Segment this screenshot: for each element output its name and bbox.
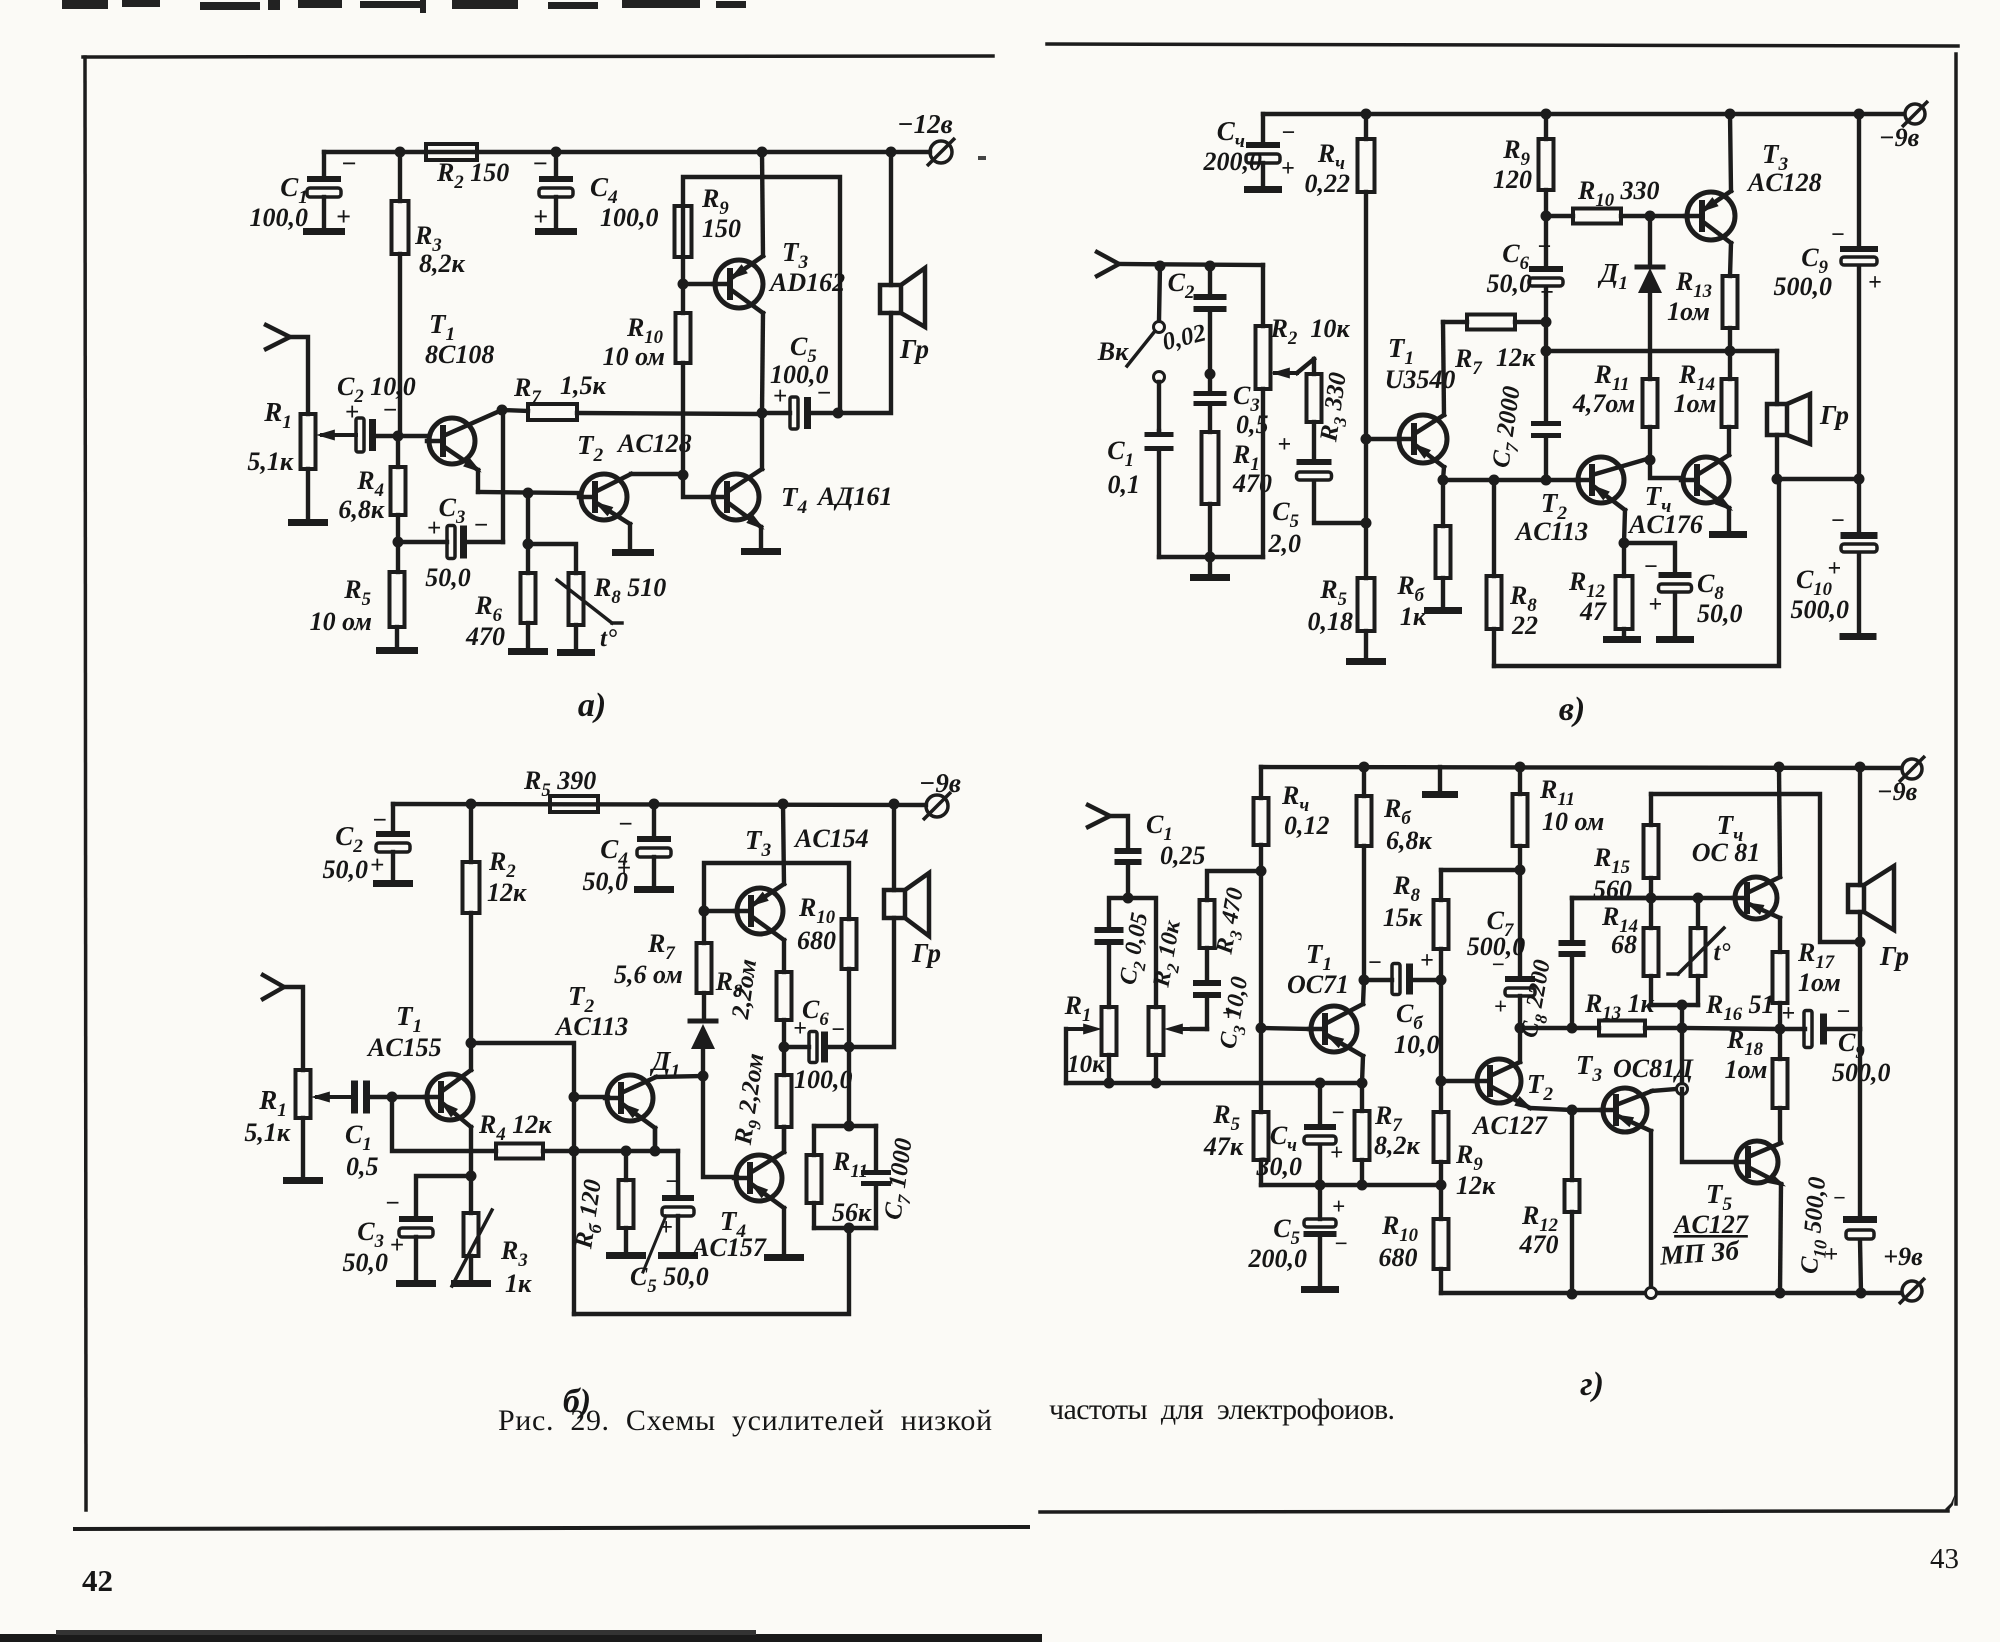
- capacitor C5 2,0 v: [1268, 432, 1367, 558]
- scan artifact bottom strip: [0, 1630, 1042, 1642]
- resistor R10 330 v: [1546, 176, 1683, 224]
- ground below C2 b: [373, 880, 413, 887]
- svg-text:50,0: 50,0: [1697, 599, 1743, 628]
- svg-text:50,0: 50,0: [425, 563, 471, 592]
- ground below T4: [741, 548, 781, 555]
- ground below R6 b: [606, 1252, 646, 1259]
- resistor R9 2,2 ом b: [730, 1047, 792, 1152]
- resistor R8 22 v: [1487, 480, 1539, 666]
- resistor R2 12к b: [463, 804, 528, 1043]
- capacitor C6 50,0 v: [1487, 216, 1564, 322]
- wire C3 to T1 collector: [501, 410, 505, 542]
- left page bottom rule: [75, 1527, 1028, 1529]
- resistor R3 470 g: [1200, 871, 1262, 980]
- svg-text:+: +: [1222, 1000, 1235, 1025]
- svg-text:42: 42: [82, 1563, 113, 1598]
- node input-switch v: [1155, 261, 1166, 272]
- resistor R13 1к g: [1520, 989, 1682, 1036]
- svg-text:C1: C1: [345, 1120, 372, 1155]
- resistor R14 1ом v: [1674, 351, 1737, 427]
- node R11-C7 top b: [844, 1121, 855, 1132]
- ground on rail g: [1422, 767, 1458, 798]
- svg-text:43: 43: [1930, 1543, 1959, 1575]
- transistor T1 U3540 v: [1361, 333, 1456, 467]
- node R4-R5-C3 junction: [393, 537, 404, 548]
- svg-text:+: +: [390, 1232, 404, 1259]
- svg-text:68: 68: [1611, 930, 1637, 959]
- svg-text:120: 120: [1493, 165, 1532, 194]
- svg-text:−: −: [618, 811, 633, 838]
- node bottom T3 emitter circle g: [1646, 1288, 1657, 1299]
- node R8 top v: [1489, 475, 1500, 486]
- node R15 bottom g: [1646, 893, 1657, 904]
- resistor R6 1к v: [1396, 480, 1450, 631]
- transistor T3 AD162: [683, 237, 845, 313]
- node rail T4 g: [1774, 762, 1785, 773]
- svg-text:R1: R1: [258, 1085, 287, 1121]
- node rail at T3 v: [1725, 109, 1736, 120]
- node T1 collector junction: [497, 405, 508, 416]
- svg-text:+: +: [1332, 1194, 1345, 1219]
- resistor R7 5,6 ом b: [614, 911, 712, 1021]
- wire T3 emitter to rail: [762, 152, 763, 256]
- node C6 right b: [844, 1042, 855, 1053]
- switch Вк v: [1097, 266, 1165, 431]
- ground below C5 g: [1301, 1286, 1339, 1293]
- svg-text:12к: 12к: [487, 878, 527, 907]
- svg-text:+: +: [1540, 280, 1554, 306]
- svg-text:R6: R6: [474, 591, 502, 626]
- node T3 base b: [699, 906, 710, 917]
- potentiometer R1 5,1к: [247, 397, 356, 476]
- resistor R5 10 ом: [310, 542, 405, 647]
- ground below R6 v: [1424, 607, 1462, 614]
- svg-text:−: −: [473, 512, 488, 539]
- capacitor C7 2000 v: [1488, 322, 1561, 480]
- svg-text:AC113: AC113: [554, 1012, 628, 1041]
- svg-text:+9в: +9в: [1883, 1242, 1923, 1271]
- svg-text:−: −: [382, 397, 397, 424]
- svg-text:−: −: [1491, 952, 1505, 977]
- svg-text:+: +: [793, 1016, 807, 1042]
- caption Рис. 29: [498, 1404, 992, 1437]
- transistor T1 OC71 g: [1261, 939, 1363, 1056]
- tiny mark near -12в: [978, 156, 986, 160]
- svg-text:12к: 12к: [1456, 1171, 1496, 1200]
- wire T3 emitter down g: [1649, 1131, 1653, 1288]
- ground below C10 v: [1840, 633, 1877, 640]
- wire T4 emitter to ground v: [1727, 508, 1731, 531]
- node rail at R2: [466, 799, 477, 810]
- thermistor R16 51 g: [1668, 898, 1775, 1025]
- svg-text:6,8к: 6,8к: [1386, 826, 1433, 855]
- svg-text:10,0: 10,0: [1394, 1030, 1440, 1059]
- page number 43: [1930, 1543, 1959, 1575]
- wire: circuit a power rail -12V: [324, 150, 930, 154]
- node rail at speaker b: [889, 799, 900, 810]
- svg-text:47: 47: [1579, 597, 1607, 626]
- ground below C8 v: [1656, 636, 1694, 643]
- node R11 bottom g: [1515, 865, 1526, 876]
- node T2 collector junction b: [698, 1071, 709, 1082]
- svg-text:+: +: [1494, 994, 1507, 1019]
- node C7 bottom on base line v: [1541, 475, 1552, 486]
- svg-text:б): б): [563, 1383, 591, 1420]
- node R1 bottom v: [1205, 552, 1216, 563]
- capacitor C5 50,0 b: [630, 1151, 709, 1297]
- svg-text:12к: 12к: [1496, 343, 1536, 372]
- svg-text:5,6 ом: 5,6 ом: [614, 960, 683, 989]
- scan artifacts top edge: [62, 0, 746, 13]
- svg-text:АД161: АД161: [816, 482, 892, 511]
- svg-text:−: −: [1830, 508, 1845, 534]
- wire T1 emitter g: [1362, 1056, 1363, 1083]
- resistor R13 1ом v: [1667, 267, 1737, 351]
- svg-text:+: +: [336, 202, 351, 231]
- wire T3 emitter to rail b: [783, 804, 784, 884]
- node C7 bottom g: [1515, 1023, 1526, 1034]
- svg-text:C3: C3: [357, 1217, 384, 1252]
- svg-text:R3: R3: [500, 1236, 528, 1271]
- wire bottom rail g: [1441, 1291, 1901, 1295]
- resistor R11 56к b: [807, 1126, 877, 1228]
- svg-text:1ом: 1ом: [1674, 389, 1717, 418]
- node rail R6 g: [1359, 762, 1370, 773]
- bootstrap wire R10 top b: [704, 863, 849, 919]
- resistor R10 680 g: [1379, 1185, 1449, 1293]
- node T2 collector v: [1645, 455, 1656, 466]
- resistor R5 47к g: [1203, 1023, 1269, 1186]
- ground below T4 v: [1709, 531, 1747, 538]
- ground below R6: [508, 648, 548, 655]
- wire T2 collector g: [1518, 1028, 1522, 1062]
- wire small circle up g: [1680, 1028, 1684, 1083]
- wire T2 collector: [631, 472, 683, 476]
- node output midpoint: [757, 408, 768, 419]
- wire T2 emitter down v: [1624, 510, 1625, 543]
- resistor R4 0,22 v: [1305, 114, 1375, 439]
- svg-text:T1: T1: [396, 1001, 422, 1037]
- svg-text:R5: R5: [1212, 1100, 1240, 1135]
- svg-text:0,02: 0,02: [1160, 319, 1209, 356]
- svg-text:t°: t°: [600, 625, 617, 652]
- ground below T4 b: [764, 1254, 804, 1261]
- svg-text:R7: R7: [647, 929, 675, 964]
- resistor R9 150: [675, 177, 841, 413]
- svg-text:C5 50,0: C5 50,0: [630, 1262, 709, 1297]
- svg-text:Cб: Cб: [1396, 999, 1423, 1034]
- svg-text:−9в: −9в: [1879, 123, 1920, 152]
- resistor R17 1ом g: [1773, 918, 1841, 1029]
- svg-text:10 ом: 10 ом: [1542, 807, 1604, 836]
- svg-text:−12в: −12в: [897, 109, 952, 139]
- capacitor C4 30,0 g: [1256, 1083, 1345, 1186]
- svg-text:+: +: [1277, 432, 1291, 458]
- wire T1 collector to R7 v: [1443, 322, 1444, 415]
- capacitor C7 500,0 g: [1467, 870, 1535, 1028]
- ground below R12 v: [1603, 636, 1641, 643]
- resistor R6 470: [465, 493, 536, 651]
- svg-text:Rб: Rб: [1396, 571, 1424, 606]
- svg-text:C1: C1: [1146, 810, 1173, 845]
- svg-text:+: +: [1330, 1140, 1343, 1165]
- svg-text:15к: 15к: [1383, 903, 1423, 932]
- node T3 base junction: [678, 279, 689, 290]
- svg-text:−9в: −9в: [1877, 777, 1918, 806]
- ground below R5: [376, 647, 418, 654]
- svg-text:+: +: [1827, 556, 1841, 582]
- node junction on rail at C4: [551, 147, 562, 158]
- wire R2 bottom g: [1154, 1055, 1158, 1083]
- node junction on rail at R3: [395, 147, 406, 158]
- svg-text:R5: R5: [343, 575, 371, 610]
- svg-text:R9: R9: [1455, 1140, 1483, 1175]
- resistor R9 12к g: [1434, 1081, 1497, 1200]
- resistor R4 0,12 g: [1254, 767, 1330, 1028]
- svg-text:AC176: AC176: [1627, 510, 1703, 539]
- caption continuation right page: [1049, 1393, 1395, 1426]
- wire T2 emitter node to C5 line b: [653, 1128, 657, 1151]
- resistor R4 6,8к: [338, 436, 405, 542]
- resistor R18 1ом g: [1725, 1025, 1788, 1141]
- left page top border: [83, 56, 993, 57]
- ground below R1 b: [283, 1177, 323, 1184]
- svg-text:R10: R10: [1381, 1211, 1419, 1246]
- capacitor C3 0,5 v: [1194, 374, 1269, 439]
- capacitor C9 500,0 v: [1774, 114, 1882, 479]
- left page left border: [85, 57, 86, 1510]
- svg-text:AC155: AC155: [366, 1033, 442, 1062]
- svg-text:500,0: 500,0: [1774, 272, 1833, 301]
- capacitor C8 2200 g: [1516, 898, 1585, 1041]
- wire T2 emitter to T3 base g: [1530, 1108, 1603, 1110]
- svg-text:1к: 1к: [505, 1269, 532, 1298]
- ground below R5 v: [1346, 658, 1386, 665]
- wire T2 collector to D1 node b: [656, 1076, 703, 1077]
- svg-text:R8: R8: [1392, 871, 1420, 906]
- svg-text:470: 470: [1232, 469, 1272, 498]
- wire R15 bootstrap g: [1651, 794, 1855, 942]
- capacitor C2 50,0: [323, 804, 411, 884]
- svg-text:−: −: [532, 149, 548, 178]
- svg-text:+: +: [1824, 1242, 1838, 1268]
- wire feedback bottom b: [574, 1228, 849, 1314]
- svg-text:−: −: [385, 1190, 400, 1217]
- resistor R7 1,5к: [502, 371, 762, 420]
- svg-text:R11: R11: [1539, 775, 1575, 810]
- capacitor C7 1000 b: [861, 1126, 923, 1228]
- node midpoint-C6 v: [1541, 346, 1552, 357]
- svg-text:R2: R2: [488, 847, 516, 882]
- svg-text:680: 680: [1379, 1243, 1418, 1272]
- loudspeaker Гр: [838, 152, 929, 413]
- resistor R11 4,7ом v: [1572, 360, 1658, 460]
- svg-text:T3: T3: [745, 825, 772, 861]
- svg-text:−: −: [1281, 120, 1296, 146]
- node rail at R4 v: [1361, 109, 1372, 120]
- svg-text:0,18: 0,18: [1308, 607, 1354, 636]
- svg-text:6,8к: 6,8к: [338, 495, 385, 524]
- resistor R6 120 b: [570, 1151, 633, 1252]
- svg-text:Д1: Д1: [1597, 258, 1628, 294]
- svg-text:C2: C2: [1168, 268, 1195, 303]
- svg-text:500,0: 500,0: [1791, 595, 1850, 624]
- node rail at R9 v: [1541, 109, 1552, 120]
- svg-text:680: 680: [797, 926, 836, 955]
- terminal -12в: [897, 109, 955, 166]
- transistor T2 AC127 g: [1436, 1059, 1554, 1140]
- node bottom R12 g: [1567, 1289, 1578, 1300]
- node T1 emitter b: [466, 1171, 477, 1182]
- wire R1 bottom g: [1107, 1055, 1111, 1083]
- svg-text:1,5к: 1,5к: [560, 371, 607, 400]
- resistor R2 150: [426, 144, 509, 193]
- node input-C2 v: [1205, 261, 1216, 272]
- svg-text:AC128: AC128: [1746, 168, 1822, 197]
- wire T2 emitter to ground: [628, 524, 632, 547]
- potentiometer R2 10к g: [1128, 898, 1207, 1055]
- svg-text:T2: T2: [1527, 1069, 1554, 1105]
- wire T3 emitter to rail v: [1730, 114, 1731, 191]
- capacitor C9 500,0 g: [1682, 999, 1891, 1087]
- node speaker bottom g: [1855, 937, 1866, 948]
- input terminal arrow: [266, 325, 308, 414]
- terminal -9в v: [1879, 101, 1928, 152]
- svg-text:Гр: Гр: [1879, 941, 1909, 971]
- capacitor C3 50,0: [398, 493, 503, 592]
- svg-text:R11: R11: [832, 1147, 868, 1182]
- wire T1 emitter down b: [469, 1127, 473, 1176]
- svg-text:+: +: [427, 515, 441, 542]
- svg-text:R3 470: R3 470: [1211, 886, 1253, 958]
- svg-text:R10: R10: [798, 893, 836, 928]
- node T1 collector b: [466, 1038, 477, 1049]
- wire feedback bottom v: [1494, 479, 1779, 666]
- capacitor C2 0,02 v: [1160, 266, 1227, 374]
- svg-text:−: −: [1334, 1231, 1348, 1256]
- capacitor C5 200,0 g: [1248, 1185, 1348, 1286]
- svg-text:470: 470: [1519, 1230, 1559, 1259]
- svg-text:0,25: 0,25: [1160, 841, 1206, 870]
- svg-text:−: −: [341, 149, 357, 178]
- svg-text:10к: 10к: [1310, 314, 1350, 343]
- node T4 base junction: [678, 470, 689, 481]
- wire feedback vertical b: [572, 1097, 576, 1314]
- transistor T3 AC154 b: [704, 824, 869, 940]
- capacitor C1 0,5 b: [345, 1081, 398, 1182]
- label г): [1580, 1366, 1604, 1403]
- svg-text:56к: 56к: [832, 1198, 872, 1227]
- svg-text:C5: C5: [1272, 497, 1299, 532]
- svg-text:50,0: 50,0: [1487, 269, 1533, 298]
- capacitor C1 100,0: [250, 149, 357, 232]
- node R17 bottom g: [1775, 1024, 1786, 1035]
- svg-text:−: −: [372, 807, 387, 834]
- resistor R14 68 g: [1601, 898, 1659, 1005]
- svg-text:а): а): [578, 687, 606, 724]
- svg-text:2,0: 2,0: [1268, 529, 1302, 558]
- wire midpoint line v: [1546, 349, 1777, 353]
- wire: circuit g power rail -9V: [1261, 767, 1901, 768]
- diode Д1 v: [1597, 216, 1663, 379]
- node R16 top g: [1693, 893, 1704, 904]
- capacitor C3 50,0 b: [343, 1176, 472, 1280]
- node C5 right junction: [833, 408, 844, 419]
- ground below C4: [535, 228, 577, 235]
- svg-text:AC128: AC128: [616, 429, 692, 458]
- transistor T4 AC176 v: [1627, 455, 1736, 539]
- svg-text:Rб 120: Rб 120: [570, 1177, 612, 1252]
- svg-text:R1: R1: [263, 397, 292, 433]
- svg-text:R15: R15: [1593, 843, 1630, 878]
- terminal +9в g: [1883, 1242, 1925, 1304]
- node R6 tap on T2 base line: [523, 488, 534, 499]
- wire T4 emitter to C5 node: [760, 413, 764, 469]
- svg-text:5,1к: 5,1к: [247, 447, 294, 476]
- svg-text:30,0: 30,0: [1256, 1152, 1303, 1181]
- svg-text:100,0: 100,0: [250, 203, 309, 232]
- input arrow g: [1088, 805, 1128, 848]
- resistor R3 330 v: [1307, 359, 1357, 459]
- wire T1 emitter corner v: [1438, 467, 1449, 486]
- svg-text:ОС 81: ОС 81: [1692, 838, 1761, 867]
- svg-text:+: +: [773, 383, 787, 410]
- node R12 tap g: [1567, 1105, 1578, 1116]
- wire T4 collector to R14 v: [1727, 427, 1731, 455]
- svg-text:−: −: [665, 1169, 680, 1195]
- svg-text:T2: T2: [577, 430, 604, 466]
- svg-text:C7 2000: C7 2000: [1488, 384, 1531, 470]
- resistor R5 0,18 v: [1308, 439, 1375, 658]
- ground below C4 v: [1244, 186, 1282, 193]
- svg-text:8,2к: 8,2к: [1374, 1131, 1421, 1160]
- resistor R10 10 ом: [603, 284, 691, 475]
- variable resistor R3 1к b: [452, 1176, 532, 1298]
- wire speaker to C9 v: [1777, 477, 1859, 481]
- node rail R11 g: [1515, 762, 1526, 773]
- wire T3 collector down v: [1730, 243, 1731, 276]
- node rail at T3: [778, 799, 789, 810]
- transistor T2 AC113 v: [1443, 457, 1647, 546]
- capacitor C1 0,1 v: [1107, 431, 1173, 557]
- svg-text:Гр: Гр: [1819, 400, 1849, 430]
- svg-text:R16 51: R16 51: [1705, 990, 1775, 1025]
- svg-text:C7 1000: C7 1000: [880, 1136, 923, 1222]
- svg-text:R10 330: R10 330: [1577, 176, 1660, 211]
- svg-text:R2: R2: [1270, 314, 1298, 349]
- svg-text:R5: R5: [1319, 575, 1347, 610]
- wire C9 right up g: [1858, 942, 1862, 1029]
- node R7-C6 junction v: [1541, 317, 1552, 328]
- node R11-C7 bottom b: [814, 1223, 876, 1234]
- svg-text:−: −: [1833, 1185, 1846, 1210]
- svg-text:8,2к: 8,2к: [419, 249, 466, 278]
- terminal -9в g: [1877, 756, 1925, 806]
- label в): [1559, 691, 1586, 728]
- svg-text:AC113: AC113: [1514, 517, 1588, 546]
- ground stem v: [1190, 557, 1230, 581]
- node junction on rail at T3 emitter: [757, 147, 768, 158]
- wire T1 collector up b: [469, 1043, 473, 1070]
- svg-text:частоты для электрофоиов.: частоты для электрофоиов.: [1049, 1393, 1395, 1426]
- transistor T1 8C108: [425, 309, 502, 477]
- transistor T5 AC127-МП g: [1658, 1089, 1789, 1271]
- node T3 collector circle g: [1652, 1084, 1688, 1095]
- node T1 emitter g: [1357, 1078, 1368, 1089]
- svg-text:+: +: [370, 852, 384, 879]
- capacitor C2 0,05 g: [1095, 898, 1159, 1007]
- svg-text:−9в: −9в: [919, 768, 961, 798]
